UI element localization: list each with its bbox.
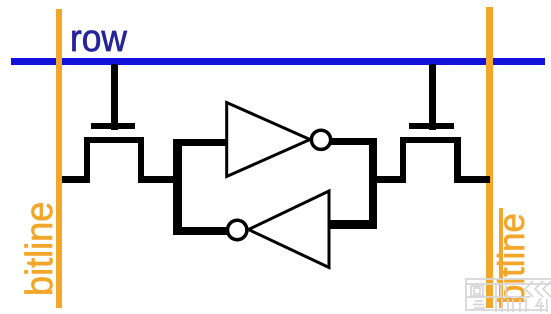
chevrons: [525, 281, 533, 297]
transistor Q2 left leg: [400, 137, 407, 183]
bottom bars: [475, 300, 483, 302]
watermark (gray logo, bottom-right): [458, 272, 551, 314]
wire: Q2 to right bitline: [454, 176, 490, 183]
inverter U2 triangle (points left): [249, 191, 330, 268]
wire: bottom inverter input: [329, 220, 377, 229]
wire: Q1 to latch left node: [138, 176, 178, 183]
transistor Q2 channel bar: [400, 137, 461, 143]
inner window glyph: [471, 286, 483, 296]
inverter U1 triangle: [227, 103, 310, 177]
wire: Q1 to left bitline: [62, 176, 91, 183]
transistor Q1 gate stem: [111, 64, 118, 130]
node B: latch right vertical bar: [369, 138, 378, 229]
transistor Q1 left leg: [84, 137, 91, 183]
label: row: [70, 20, 127, 58]
wire: bottom inverter output: [173, 227, 227, 235]
outer box: [466, 280, 548, 310]
node: right bitline (orange vertical): [486, 7, 493, 308]
transistor Q2 right leg: [454, 137, 461, 183]
transistor Q1 gate bar: [91, 123, 135, 129]
label: bitline (right, rotated): [493, 213, 530, 304]
wire: top inverter output: [330, 138, 377, 145]
bottom right glyphs: [519, 299, 521, 312]
transistor Q2 gate bar: [409, 123, 454, 129]
transistor Q1 channel bar: [84, 137, 145, 143]
wire: Q2 to latch right node: [369, 176, 406, 183]
inverter U2 bubble: [228, 220, 247, 239]
label: bitline (left, rotated): [21, 202, 59, 296]
node A: latch left vertical bar: [173, 139, 182, 235]
node: left bitline (orange vertical): [56, 9, 62, 308]
transistor Q1 right leg: [138, 137, 145, 183]
wire: row word line (blue horizontal): [11, 58, 545, 65]
middle vertical bars: [495, 285, 497, 296]
transistor Q2 gate stem: [429, 64, 436, 130]
wire: overbar of right bitline label: [499, 208, 504, 308]
wire: top inverter input: [173, 139, 228, 146]
inverter U1 bubble: [311, 130, 330, 149]
